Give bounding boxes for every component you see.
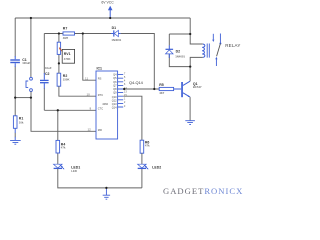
svg-text:4M7: 4M7	[63, 36, 69, 40]
ground (bottom center)	[103, 188, 110, 199]
svg-text:47k: 47k	[145, 144, 150, 148]
wire pin 11 branch	[83, 34, 96, 81]
resistor R6	[140, 140, 150, 164]
svg-text:Q4-Q14: Q4-Q14	[129, 80, 144, 85]
diode D1 1N4001	[111, 26, 122, 42]
wire relay column from top rail	[190, 18, 203, 67]
junction: D2 top / relay column	[189, 33, 191, 35]
svg-text:12: 12	[88, 128, 92, 132]
wire C2 column	[43, 34, 45, 111]
svg-text:BC547: BC547	[193, 85, 202, 89]
svg-text:Q8: Q8	[113, 87, 117, 91]
junction: C1 bottom / R1 top	[14, 96, 16, 98]
power 6V VCC	[101, 1, 114, 18]
svg-text:LED: LED	[71, 169, 77, 173]
svg-text:RELAY: RELAY	[225, 43, 240, 48]
junction: RV1 top / R7 left	[58, 32, 60, 34]
svg-text:Q4: Q4	[113, 73, 117, 77]
ground (Q1 emitter)	[185, 121, 195, 125]
wire bottom rail with LED1/LED2	[58, 169, 142, 188]
LED2	[138, 164, 162, 169]
svg-text:Q9: Q9	[113, 91, 117, 95]
resistor R2 150K	[57, 73, 69, 86]
junction: VCC symbol / top rail	[109, 17, 111, 19]
svg-text:4K7: 4K7	[159, 91, 165, 95]
svg-text:Q7: Q7	[113, 83, 117, 87]
wire button column from VCC	[30, 18, 32, 77]
wire Q8 output to R5	[123, 88, 159, 90]
junction: D1 branch / Q8 net / R5	[153, 88, 155, 90]
junction: RV1 bottom / R2 top	[58, 62, 60, 64]
relay contact arrows	[212, 34, 240, 67]
resistor R1	[13, 98, 24, 141]
svg-text:Q5: Q5	[113, 76, 117, 80]
svg-text:10: 10	[87, 92, 91, 96]
svg-text:Q10: Q10	[112, 95, 117, 99]
junction: D2 bottom / relay coil / Q1 collector	[189, 65, 191, 67]
svg-text:Q6: Q6	[113, 80, 117, 84]
svg-text:Q13: Q13	[112, 102, 117, 106]
pin numbers left	[85, 77, 92, 132]
junction: button bottom / MR net	[30, 96, 32, 98]
pin numbers right	[124, 71, 127, 107]
svg-text:Q14: Q14	[112, 106, 117, 110]
junction: button column / VCC rail	[30, 17, 32, 19]
svg-text:11: 11	[85, 77, 88, 81]
capacitor C2 10uF	[40, 66, 52, 89]
junction: bottom rail / ground	[105, 187, 107, 189]
wire oscillator top rail	[44, 34, 154, 90]
ground (R1)	[10, 140, 21, 144]
svg-text:D2: D2	[176, 50, 181, 54]
resistor R7	[63, 26, 75, 40]
svg-text:D1: D1	[112, 26, 117, 30]
relay coil	[202, 44, 205, 57]
wire Q10 output to R6	[123, 96, 142, 140]
junction: R7 right / D1 / pin 11 branch	[82, 32, 84, 34]
svg-text:10uF: 10uF	[45, 66, 52, 70]
svg-text:4060: 4060	[102, 102, 108, 106]
svg-text:GADGETRONICX: GADGETRONICX	[163, 186, 243, 196]
diode D2 1N4001 flyback	[166, 34, 191, 67]
svg-text:6V VCC: 6V VCC	[101, 1, 114, 5]
wire top rail VCC	[15, 17, 190, 19]
svg-text:R7: R7	[63, 26, 68, 30]
junction: R4 top on pin 9 net	[57, 109, 59, 111]
svg-text:C2: C2	[45, 72, 50, 76]
svg-text:Q12: Q12	[112, 98, 117, 102]
svg-text:470K: 470K	[64, 57, 71, 61]
svg-text:R5: R5	[159, 83, 164, 87]
wire pin 9 rail	[44, 109, 96, 111]
IC right pin stubs	[118, 75, 124, 107]
svg-text:RTC: RTC	[98, 93, 103, 97]
relay core bars	[207, 44, 209, 58]
push button reset	[26, 77, 32, 91]
svg-text:150K: 150K	[63, 78, 70, 82]
resistor R4	[56, 110, 66, 164]
svg-text:MR: MR	[98, 128, 102, 132]
wire R2 to pin 10	[59, 86, 96, 96]
preset RV1 470K	[57, 34, 74, 64]
resistor R5	[159, 83, 181, 95]
svg-text:CTC: CTC	[98, 107, 103, 111]
svg-text:10k: 10k	[19, 120, 24, 124]
wire R2 top lead	[58, 63, 60, 73]
svg-text:RS: RS	[98, 76, 102, 80]
wire left column C1	[14, 18, 16, 98]
IC1 4060 box	[96, 66, 118, 139]
svg-text:IC1: IC1	[97, 66, 103, 70]
LED1	[54, 164, 81, 173]
transistor Q1 BC547	[181, 67, 202, 121]
svg-text:LED2: LED2	[152, 166, 161, 170]
junction: Q8 pin stub	[123, 88, 125, 90]
svg-text:1N4001: 1N4001	[111, 38, 121, 42]
svg-text:RV1: RV1	[64, 52, 71, 56]
svg-text:1N4001: 1N4001	[175, 55, 185, 59]
svg-text:100uF: 100uF	[22, 61, 30, 65]
wire MR node: button bottom, R1 branch, to pin 12	[15, 92, 96, 132]
svg-text:47k: 47k	[61, 146, 66, 150]
capacitor C1	[10, 56, 30, 67]
